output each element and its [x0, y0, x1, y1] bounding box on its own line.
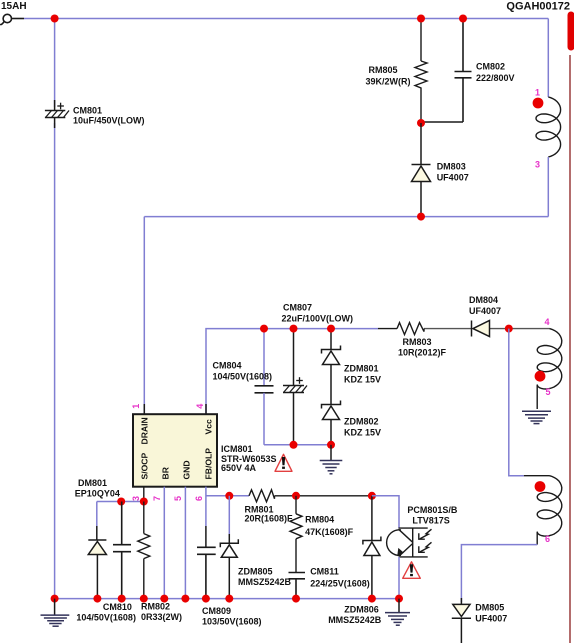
opto-coupler PCM801 phototransistor: [387, 528, 428, 557]
wire left vertical rail lower: [54, 123, 56, 599]
resistor RM802: [138, 502, 150, 599]
winding 6 bottom exit: [536, 532, 538, 545]
svg-text:5: 5: [546, 387, 551, 397]
svg-text:104/50V(1608): 104/50V(1608): [76, 612, 136, 622]
winding 4-5 bottom exit: [536, 385, 538, 409]
transformer winding 4-5: [537, 329, 562, 389]
svg-text:GND: GND: [182, 460, 192, 479]
svg-text:BR: BR: [161, 466, 171, 479]
wire FB bus mid: [275, 495, 372, 497]
wire winding6 feed vertical: [509, 329, 524, 476]
wire winding3 bottom lead: [547, 157, 549, 217]
wire drain vertical (pin1): [143, 217, 145, 415]
junction top-left: [51, 15, 59, 23]
svg-text:DM803: DM803: [437, 162, 466, 172]
resistor RM804: [290, 496, 302, 573]
wire IC pin1 stub: [143, 404, 145, 414]
junction RM805/CM802/DM803: [417, 119, 425, 127]
svg-text:UF4007: UF4007: [437, 173, 469, 183]
svg-text:10R(2012)F: 10R(2012)F: [398, 348, 447, 358]
svg-text:UF4007: UF4007: [475, 614, 507, 624]
resistor RM803: [397, 323, 424, 335]
zener diode ZDM801: [322, 329, 341, 405]
junction CM810 bottom: [118, 595, 126, 603]
svg-text:47K(1608)F: 47K(1608)F: [305, 527, 354, 537]
svg-text:1: 1: [535, 88, 540, 98]
svg-text:222/800V: 222/800V: [476, 73, 515, 83]
junction opto emitter bottom: [395, 595, 403, 603]
svg-text:CM810: CM810: [103, 602, 132, 612]
svg-text:LTV817S: LTV817S: [412, 516, 449, 526]
junction ZDM806 top: [368, 492, 376, 500]
ground bottom left: [41, 599, 70, 627]
wire opto emitter to ground bus: [398, 557, 400, 599]
junction ZDM806 bottom: [368, 595, 376, 603]
wire DM804 to winding4: [490, 328, 550, 330]
capacitor CM811: [289, 573, 306, 599]
junction DM803 bottom: [417, 213, 425, 221]
warning triangle below opto: [403, 562, 421, 579]
junction CM804 top: [260, 325, 268, 333]
svg-text:MMSZ5242B: MMSZ5242B: [328, 615, 382, 625]
svg-text:CM804: CM804: [213, 361, 242, 371]
junction ZDM805 bottom: [225, 595, 233, 603]
wire IC pin5 GND to ground bus: [184, 487, 186, 599]
junction pin7 bottom: [160, 595, 168, 603]
svg-text:DRAIN: DRAIN: [140, 417, 150, 444]
ground below ZDM802: [320, 445, 343, 474]
svg-text:CM811: CM811: [310, 567, 339, 577]
svg-text:6: 6: [194, 496, 204, 501]
svg-text:Vcc: Vcc: [204, 419, 214, 435]
svg-text:DM805: DM805: [475, 603, 504, 613]
capacitor CM804: [255, 329, 274, 445]
wire left bias bus: [97, 501, 144, 503]
winding polarity dot pin5: [535, 371, 546, 382]
junction CM807 top: [290, 325, 298, 333]
svg-text:ICM801: ICM801: [221, 444, 253, 454]
svg-text:10uF/450V(LOW): 10uF/450V(LOW): [73, 116, 145, 126]
ground below winding 5: [522, 411, 551, 423]
svg-text:CM801: CM801: [73, 106, 102, 116]
svg-text:CM807: CM807: [283, 303, 312, 313]
svg-text:CM802: CM802: [476, 62, 505, 72]
diode DM801: [88, 502, 106, 599]
wire ground bus: [55, 598, 399, 600]
capacitor CM802: [421, 19, 472, 123]
junction CM802 top: [459, 15, 467, 23]
svg-text:CM809: CM809: [202, 606, 231, 616]
junction FB bus / ZDM805: [225, 492, 233, 500]
power rail line right: [569, 55, 571, 643]
junction CM807 bottom: [290, 441, 298, 449]
capacitor CM809: [197, 547, 216, 599]
svg-text:4: 4: [195, 404, 205, 409]
junction ground left: [51, 595, 59, 603]
svg-text:39K/2W(R): 39K/2W(R): [365, 77, 410, 87]
svg-text:ZDM801: ZDM801: [344, 364, 379, 374]
svg-text:4: 4: [545, 317, 550, 327]
opto light arrows: [419, 529, 432, 552]
wire top bus: [24, 18, 548, 20]
wire winding1 top lead: [547, 19, 549, 98]
zener diode ZDM805: [220, 496, 238, 599]
wire IC pin7 BR to ground bus: [163, 487, 165, 599]
svg-text:ZDM806: ZDM806: [344, 605, 379, 615]
svg-text:3: 3: [535, 160, 540, 170]
wire left vertical rail: [54, 19, 56, 108]
wire Vcc bus: [206, 329, 378, 415]
svg-text:RM803: RM803: [403, 337, 432, 347]
junction DM804 output: [505, 325, 513, 333]
junction RM805 top: [417, 15, 425, 23]
wire IC pin6 FB/OLP down: [205, 487, 207, 526]
ground below opto: [385, 599, 410, 626]
svg-text:5: 5: [173, 496, 183, 501]
resistor RM801: [249, 490, 275, 502]
svg-text:6: 6: [545, 534, 550, 544]
wire RM803 left lead: [378, 328, 397, 330]
svg-text:RM802: RM802: [141, 602, 170, 612]
svg-text:QGAH00172: QGAH00172: [506, 1, 570, 13]
svg-text:3: 3: [131, 496, 141, 501]
svg-text:103/50V(1608): 103/50V(1608): [202, 617, 262, 627]
zener diode ZDM806: [363, 496, 381, 599]
junction RM804 top: [292, 492, 300, 500]
diode DM803: [412, 123, 431, 217]
svg-text:22uF/100V(LOW): 22uF/100V(LOW): [282, 314, 354, 324]
svg-text:RM804: RM804: [305, 515, 334, 525]
diode DM804: [472, 321, 490, 337]
svg-text:ZDM802: ZDM802: [344, 417, 379, 427]
svg-text:104/50V(1608): 104/50V(1608): [213, 372, 273, 382]
junction CM811 bottom: [292, 595, 300, 603]
capacitor CM801: [45, 100, 69, 128]
wire Vcc bus right of RM803: [424, 328, 472, 330]
junction pin5 bottom: [181, 595, 189, 603]
zener diode ZDM802: [322, 401, 341, 445]
wire Vcc mid bus: [264, 444, 331, 446]
op-amp U1: IC ICM801 STR-W6053S body: [133, 414, 217, 487]
svg-text:DM801: DM801: [78, 478, 107, 488]
svg-text:15AH: 15AH: [1, 1, 27, 12]
svg-text:S/OCP: S/OCP: [140, 452, 150, 479]
junction CM809 bottom: [202, 595, 210, 603]
svg-text:7: 7: [152, 496, 162, 501]
capacitor CM810: [113, 502, 131, 599]
power rail bar top right: [568, 15, 574, 47]
junction RM802 bottom: [140, 595, 148, 603]
svg-text:FB/OLP: FB/OLP: [204, 448, 214, 480]
resistor RM805: [415, 19, 427, 125]
junction ZDM801 top: [327, 325, 335, 333]
svg-text:ZDM805: ZDM805: [238, 567, 273, 577]
winding polarity dot pin1: [533, 98, 544, 109]
svg-text:1: 1: [131, 404, 141, 409]
transformer winding 6: [537, 476, 562, 536]
transformer winding 1-3: [536, 97, 561, 157]
junction CM810 top: [117, 498, 125, 506]
svg-text:224/25V(1608): 224/25V(1608): [310, 579, 370, 589]
junction ZDM802 bottom: [327, 441, 335, 449]
diode DM805: [452, 598, 471, 643]
connector terminal 15AH: [0, 14, 24, 24]
winding polarity dot pin6: [535, 481, 546, 492]
wire winding6 return: [461, 545, 537, 602]
svg-text:KDZ 15V: KDZ 15V: [344, 428, 381, 438]
svg-text:DM804: DM804: [469, 295, 498, 305]
junction RM802/pin3 top: [140, 498, 148, 506]
svg-text:EP10QY04: EP10QY04: [75, 489, 120, 499]
svg-text:KDZ 15V: KDZ 15V: [344, 375, 381, 385]
capacitor CM807 electrolytic: [283, 329, 307, 445]
wire FB bus right: [206, 495, 249, 497]
svg-text:0R33(2W): 0R33(2W): [141, 612, 182, 622]
wire winding6 feed horizontal: [524, 475, 550, 477]
wire primary return bus: [144, 216, 548, 218]
svg-text:MMSZ5242B: MMSZ5242B: [238, 577, 292, 587]
wire IC pin3: [143, 487, 145, 502]
warning triangle near IC: [275, 454, 292, 471]
svg-text:20R(1608)F: 20R(1608)F: [245, 513, 294, 523]
wire FB bus to opto: [372, 496, 399, 528]
svg-text:UF4007: UF4007: [469, 306, 501, 316]
svg-text:650V 4A: 650V 4A: [221, 463, 257, 473]
svg-text:PCM801S/B: PCM801S/B: [407, 505, 458, 515]
svg-text:RM805: RM805: [368, 65, 397, 75]
junction DM801 bottom: [93, 595, 101, 603]
wire IC pin4 stub: [205, 404, 207, 414]
